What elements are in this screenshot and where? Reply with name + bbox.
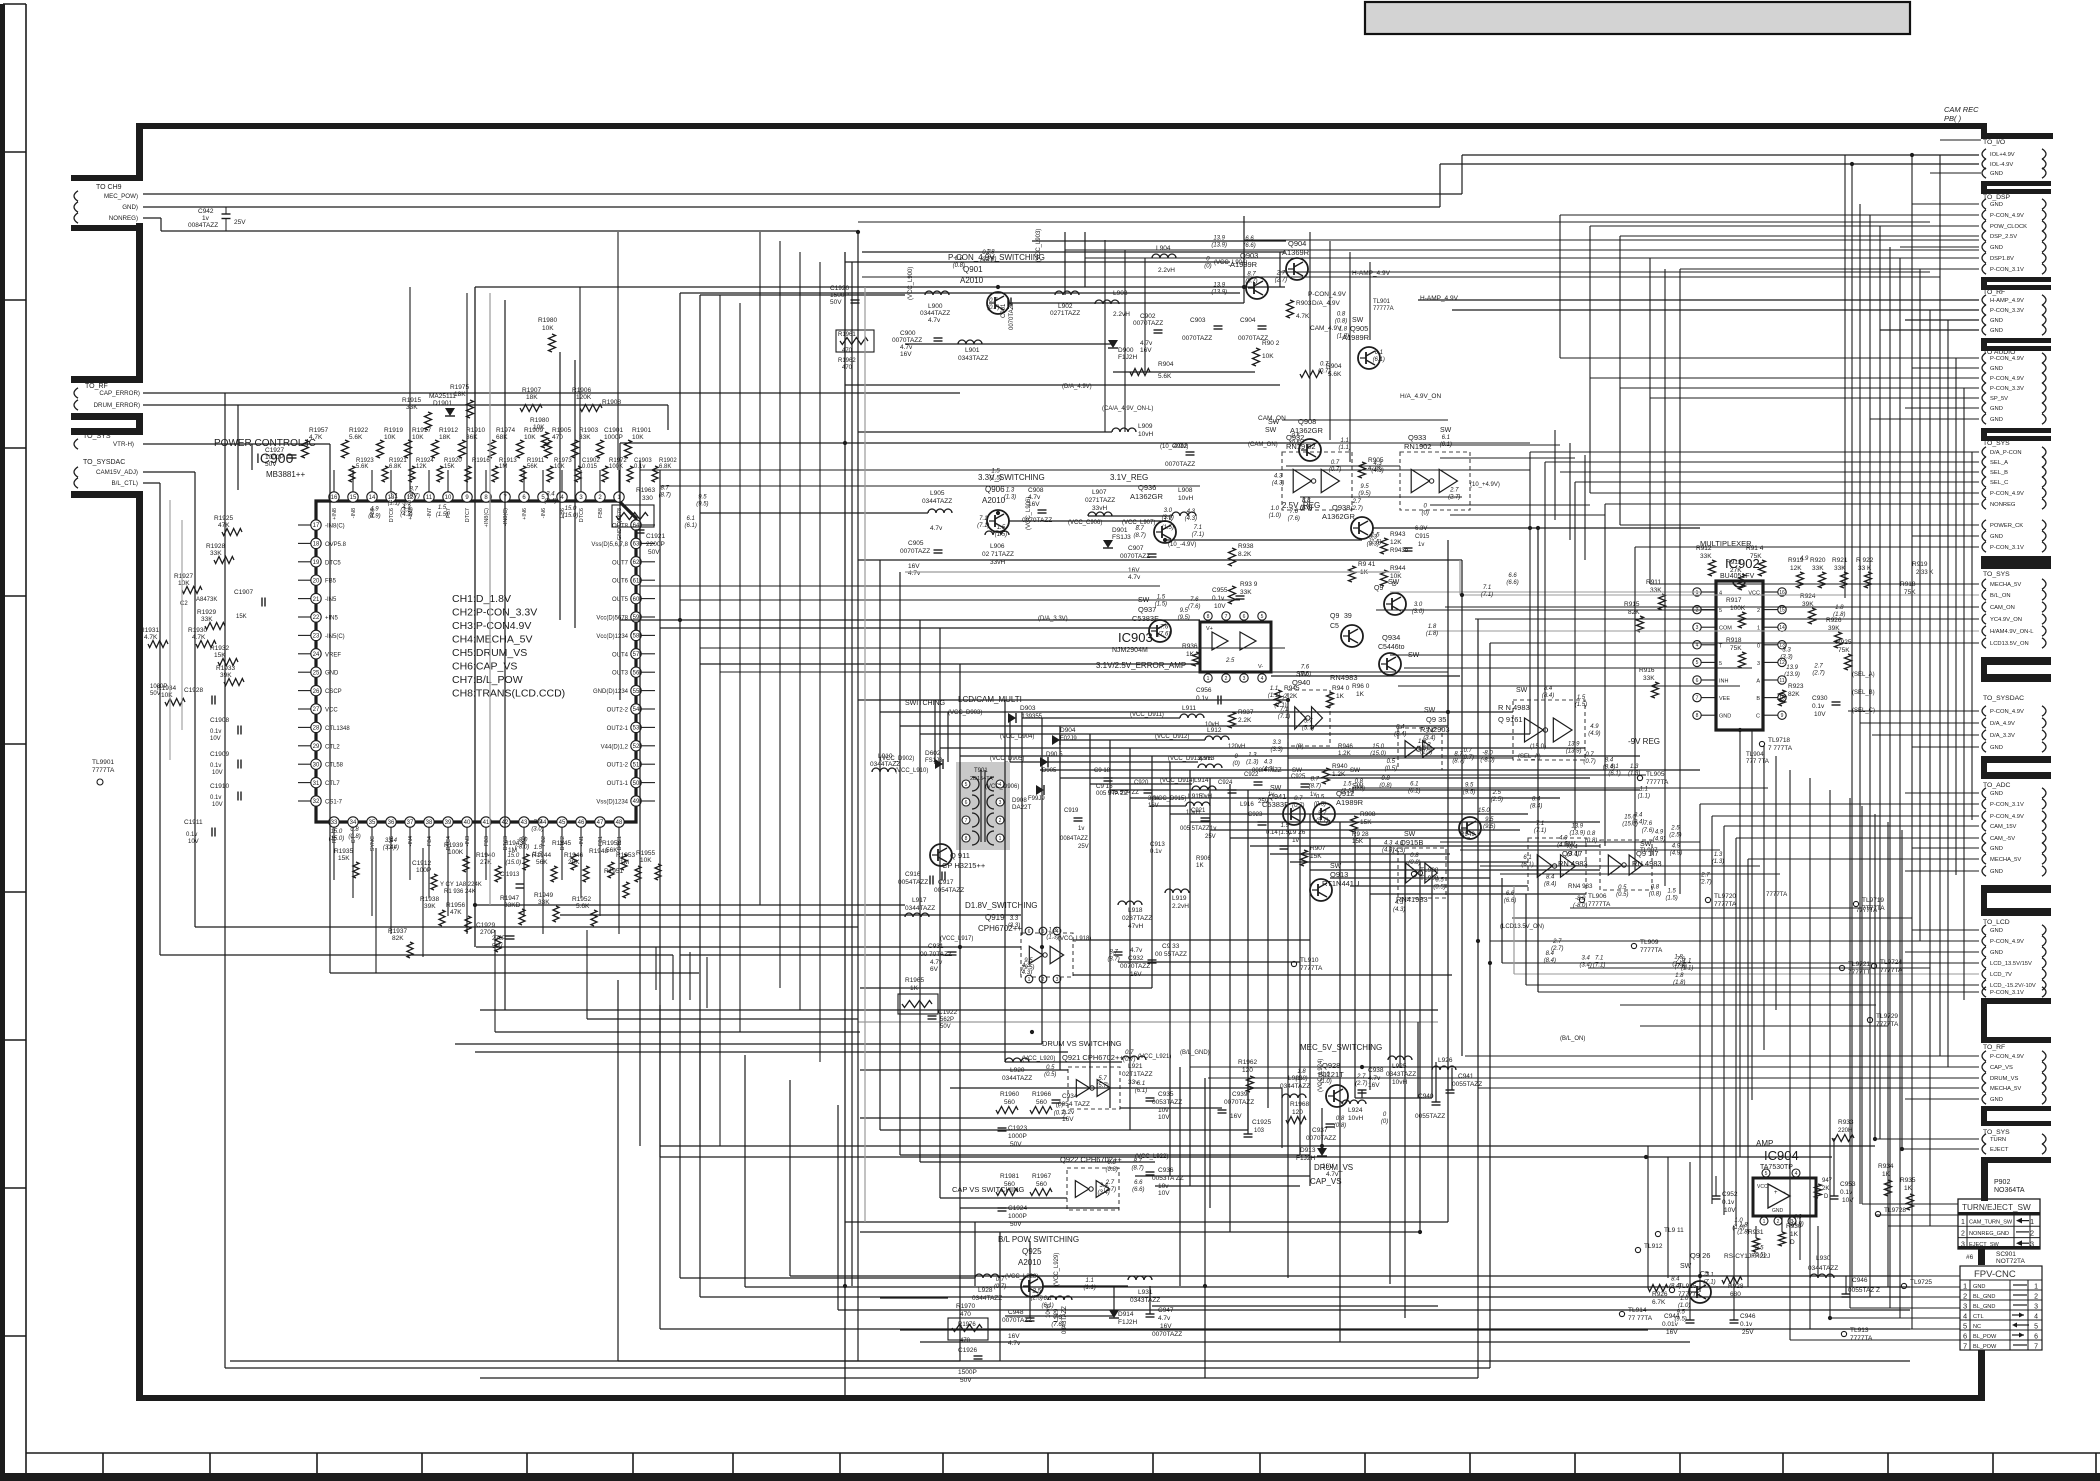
svg-text:Q940: Q940 (1292, 678, 1310, 687)
svg-text:15.0: 15.0 (565, 506, 577, 512)
svg-text:1.5: 1.5 (997, 525, 1006, 531)
svg-text:CAM15V_ADJ): CAM15V_ADJ) (96, 469, 138, 476)
svg-text:14: 14 (369, 495, 376, 501)
section P-CON_4.9V_SWITCHING title (948, 253, 1045, 285)
svg-text:1K: 1K (1336, 693, 1345, 700)
svg-text:6: 6 (1028, 929, 1031, 935)
svg-text:TL912: TL912 (1644, 1243, 1663, 1250)
svg-text:IOL+4.9V: IOL+4.9V (1990, 152, 2015, 158)
svg-text:C919: C919 (1064, 808, 1079, 814)
svg-text:103: 103 (1254, 1128, 1265, 1134)
svg-text:6: 6 (1696, 678, 1699, 684)
svg-text:6.6: 6.6 (1134, 1180, 1143, 1186)
svg-text:(10_-4.9V): (10_-4.9V) (1168, 542, 1196, 548)
svg-text:4: 4 (1261, 676, 1264, 682)
svg-text:5.7: 5.7 (1098, 1076, 1107, 1082)
wire mesh (143, 140, 1981, 1395)
svg-text:L905: L905 (930, 490, 945, 497)
svg-text:47K: 47K (218, 522, 230, 529)
svg-text:SEL_A: SEL_A (1990, 460, 2008, 466)
svg-text:(2.5): (2.5) (1669, 833, 1681, 839)
svg-text:33: 33 (331, 820, 338, 826)
svg-text:9.5: 9.5 (1180, 608, 1189, 614)
svg-text:(1.5): (1.5) (1279, 830, 1291, 836)
svg-text:30: 30 (313, 762, 320, 768)
svg-text:120: 120 (1292, 1109, 1303, 1116)
svg-text:1K: 1K (1790, 1231, 1799, 1238)
svg-text:14: 14 (1779, 625, 1785, 631)
svg-text:C5383F: C5383F (1262, 800, 1289, 809)
svg-text:Q9: Q9 (1330, 613, 1339, 620)
svg-text:CAM_ON: CAM_ON (1990, 605, 2015, 611)
svg-text:4.7v: 4.7v (1130, 947, 1143, 954)
svg-text:R91 4: R91 4 (1746, 545, 1764, 552)
svg-text:10V: 10V (210, 736, 221, 742)
svg-text:H/AM4.9V_ON-L: H/AM4.9V_ON-L (1990, 629, 2034, 635)
svg-text:NONREG): NONREG) (109, 215, 138, 222)
svg-text:(4.9): (4.9) (1653, 836, 1665, 842)
connector group TO_LCD (1982, 919, 2046, 997)
svg-text:11: 11 (1779, 678, 1784, 684)
svg-text:R9 28: R9 28 (1352, 831, 1369, 838)
capacitor C903 (1182, 317, 1223, 342)
svg-text:-IN8(C): -IN8(C) (325, 524, 345, 530)
svg-text:1.5: 1.5 (1163, 518, 1172, 524)
svg-text:R1980: R1980 (530, 417, 550, 424)
svg-text:C2: C2 (180, 601, 188, 607)
svg-text:4.7K: 4.7K (309, 434, 323, 441)
svg-text:VREF: VREF (325, 652, 341, 658)
svg-text:75K: 75K (1750, 553, 1762, 560)
svg-text:4.3: 4.3 (1274, 474, 1283, 480)
transistor Q908 (1268, 417, 1324, 461)
svg-text:10V: 10V (1214, 603, 1226, 610)
svg-text:7.1: 7.1 (1194, 525, 1202, 531)
svg-text:33vH: 33vH (1092, 505, 1107, 512)
svg-text:25V: 25V (234, 219, 246, 226)
svg-text:(10_-4.9V): (10_-4.9V) (1160, 444, 1188, 450)
svg-text:0.1v: 0.1v (1196, 695, 1209, 702)
svg-text:(VCC_L910): (VCC_L910) (895, 768, 928, 774)
svg-text:CSCP: CSCP (325, 689, 342, 695)
svg-text:(9.5): (9.5) (1674, 1316, 1686, 1322)
svg-text:R923: R923 (1788, 683, 1804, 690)
svg-text:R1955: R1955 (636, 850, 656, 857)
capacitor C912 (1165, 443, 1195, 468)
svg-text:(7.1): (7.1) (1593, 963, 1605, 969)
svg-text:45: 45 (559, 820, 566, 826)
svg-text:DRUM_ERROR): DRUM_ERROR) (94, 402, 140, 409)
inverter pair Q940 RN4983 (1288, 671, 1358, 746)
svg-text:(VCC_L929): (VCC_L929) (1054, 1253, 1060, 1286)
svg-text:CH6:CAP_VS: CH6:CAP_VS (452, 661, 517, 673)
svg-text:5: 5 (1963, 1322, 1967, 1331)
svg-text:(VCC_D913): (VCC_D913) (1168, 756, 1202, 762)
svg-text:L924: L924 (1348, 1107, 1363, 1114)
svg-text:2.33 K: 2.33 K (1916, 570, 1933, 576)
svg-text:(15.0): (15.0) (563, 513, 579, 519)
svg-text:FB5: FB5 (325, 579, 337, 585)
svg-text:GND: GND (1990, 417, 2003, 423)
svg-text:(7.6): (7.6) (1188, 604, 1200, 610)
svg-text:4.3: 4.3 (1384, 841, 1393, 847)
svg-text:Q925: Q925 (1022, 1247, 1042, 1256)
svg-text:POW_CLOCK: POW_CLOCK (1990, 224, 2027, 230)
capacitor C938 (1358, 1067, 1384, 1093)
transistor Q912 (1313, 783, 1364, 825)
svg-text:(0.8): (0.8) (1106, 1167, 1118, 1173)
svg-text:1.8: 1.8 (1835, 605, 1844, 611)
svg-text:C934: C934 (1062, 1093, 1078, 1100)
svg-text:10V: 10V (1158, 1114, 1170, 1121)
svg-text:CTL1348: CTL1348 (325, 726, 350, 732)
svg-text:D904: D904 (1060, 727, 1076, 734)
svg-text:2.2vH: 2.2vH (1172, 903, 1189, 910)
svg-text:330: 330 (642, 495, 653, 502)
svg-text:6.6: 6.6 (1506, 891, 1515, 897)
svg-text:D/A_P-CON: D/A_P-CON (1990, 450, 2022, 456)
svg-text:A1362GR: A1362GR (1322, 512, 1356, 521)
inductor L900 (920, 291, 950, 324)
svg-text:9: 9 (1781, 713, 1784, 719)
svg-text:39K: 39K (424, 903, 436, 910)
transistor Q942 (1374, 579, 1406, 615)
svg-text:7777TA: 7777TA (1640, 947, 1663, 954)
svg-text:R1945: R1945 (552, 840, 572, 847)
svg-text:R1950: R1950 (602, 840, 622, 847)
IC900 right pins (591, 520, 655, 806)
svg-text:5: 5 (1719, 661, 1722, 667)
svg-text:CH2:P-CON_3.3V: CH2:P-CON_3.3V (452, 607, 537, 619)
svg-text:0.8: 0.8 (1410, 853, 1419, 859)
IC900 labels (214, 438, 316, 479)
svg-text:(3.3): (3.3) (1780, 654, 1792, 660)
svg-text:7.1: 7.1 (1280, 707, 1288, 713)
svg-text:5: 5 (965, 782, 968, 788)
svg-text:CH1:D_1.8V: CH1:D_1.8V (452, 593, 511, 605)
svg-text:A1989R: A1989R (1336, 798, 1364, 807)
svg-text:1M: 1M (620, 859, 629, 866)
svg-text:8.7: 8.7 (1109, 949, 1118, 955)
svg-text:0.7: 0.7 (996, 1277, 1005, 1283)
svg-text:TO CH9: TO CH9 (96, 184, 122, 191)
svg-text:TA7530TP: TA7530TP (1760, 1164, 1793, 1171)
svg-text:Q 9161: Q 9161 (1498, 715, 1523, 724)
resistor R926b (1648, 1285, 1668, 1307)
svg-text:(VCC_L903): (VCC_L903) (1036, 229, 1042, 262)
svg-text:+IN8(C): +IN8(C) (484, 508, 490, 528)
svg-text:TO AUDIO: TO AUDIO (1983, 349, 2015, 356)
svg-text:2: 2 (1963, 1292, 1967, 1301)
svg-text:R1961: R1961 (838, 332, 856, 338)
transistor Q932 inverter pair (1265, 427, 1352, 510)
svg-text:12K: 12K (1790, 565, 1802, 572)
svg-text:(VCC_L920): (VCC_L920) (1022, 1056, 1055, 1062)
svg-text:GND: GND (1990, 534, 2003, 540)
svg-text:0.8: 0.8 (1337, 312, 1346, 318)
svg-text:GND: GND (1973, 1284, 1985, 1290)
svg-text:(0.8): (0.8) (953, 263, 965, 269)
svg-text:R1966: R1966 (1032, 1091, 1052, 1098)
svg-text:TL913: TL913 (1850, 1327, 1869, 1334)
svg-text:+IN5: +IN5 (325, 616, 339, 622)
svg-text:R946: R946 (1338, 743, 1353, 750)
svg-text:(3.4): (3.4) (1580, 963, 1592, 969)
svg-text:(8.7): (8.7) (1309, 784, 1321, 790)
svg-text:2: 2 (1777, 1219, 1780, 1225)
capacitor C1925 (1244, 1119, 1272, 1137)
svg-text:R1981: R1981 (1000, 1173, 1020, 1180)
svg-text:R1929: R1929 (197, 609, 217, 616)
svg-text:15: 15 (1779, 607, 1785, 613)
svg-text:R906: R906 (1196, 855, 1211, 862)
svg-text:L902: L902 (1058, 303, 1073, 310)
svg-text:18K: 18K (454, 391, 466, 398)
svg-text:TO_SYS: TO_SYS (1983, 1129, 2010, 1136)
svg-text:SEL_B: SEL_B (1990, 470, 2008, 476)
svg-text:560: 560 (1036, 1181, 1047, 1188)
svg-text:R1905: R1905 (552, 427, 572, 434)
svg-text:C935: C935 (1158, 1091, 1174, 1098)
svg-text:21: 21 (313, 597, 320, 603)
svg-text:4.3: 4.3 (1395, 900, 1404, 906)
svg-text:(VCC_D906): (VCC_D906) (985, 784, 1019, 790)
svg-text:58: 58 (633, 634, 640, 640)
inverter pair Q917 RN4983 (1528, 838, 1588, 894)
svg-text:(3.3): (3.3) (1300, 505, 1312, 511)
svg-text:1.2K: 1.2K (1338, 750, 1352, 757)
inductor L901 (958, 340, 988, 362)
svg-text:MB3881++: MB3881++ (266, 470, 305, 479)
svg-text:2.5: 2.5 (1670, 826, 1680, 832)
svg-text:7.6: 7.6 (1190, 597, 1199, 603)
svg-text:0.1v: 0.1v (186, 832, 197, 838)
svg-text:560: 560 (1004, 1181, 1015, 1188)
svg-text:R1962: R1962 (838, 358, 856, 364)
svg-text:7.1: 7.1 (1483, 585, 1491, 591)
svg-text:Q936: Q936 (1138, 483, 1156, 492)
svg-text:D/A_4.9V: D/A_4.9V (1990, 721, 2015, 727)
svg-text:4.7v: 4.7v (928, 317, 941, 324)
svg-text:1500P: 1500P (958, 1369, 977, 1376)
resistor R943 (1381, 531, 1406, 554)
svg-text:8: 8 (965, 836, 968, 842)
svg-text:16V: 16V (1230, 1113, 1242, 1120)
svg-text:(6.1): (6.1) (1608, 771, 1620, 777)
svg-text:(9.5): (9.5) (1463, 789, 1475, 795)
svg-text:B: B (1756, 696, 1760, 702)
svg-text:(13.9): (13.9) (1569, 830, 1585, 836)
svg-text:R1957: R1957 (309, 427, 329, 434)
svg-text:C924: C924 (1218, 780, 1233, 786)
svg-text:GND: GND (1990, 846, 2003, 852)
capacitor C1922 (928, 1009, 958, 1030)
svg-text:1: 1 (1207, 676, 1210, 682)
svg-text:GND: GND (1990, 366, 2003, 372)
svg-text:(8.4): (8.4) (1669, 1284, 1681, 1290)
svg-text:(3.3): (3.3) (400, 507, 412, 513)
svg-text:(2.7): (2.7) (1812, 670, 1824, 676)
svg-text:1.8: 1.8 (1428, 624, 1437, 630)
svg-text:CAM_4.9V: CAM_4.9V (1310, 325, 1342, 332)
svg-text:(0.8): (0.8) (1649, 891, 1661, 897)
svg-text:10: 10 (445, 495, 452, 501)
svg-text:10vH: 10vH (1178, 495, 1193, 502)
svg-text:75K: 75K (1730, 645, 1742, 652)
svg-text:(VCC_D905): (VCC_D905) (990, 756, 1024, 762)
svg-text:SW: SW (1516, 687, 1528, 694)
svg-text:0344TAZZ: 0344TAZZ (870, 761, 900, 768)
svg-text:(9.5): (9.5) (1178, 615, 1190, 621)
svg-text:(8.7): (8.7) (1131, 1165, 1143, 1171)
svg-text:TL905: TL905 (1646, 771, 1665, 778)
svg-text:A8473K: A8473K (196, 597, 217, 603)
svg-text:TO_SYS: TO_SYS (83, 433, 111, 440)
multiplexer IC902 body (1693, 581, 1786, 730)
svg-text:(6.1): (6.1) (1041, 1303, 1053, 1309)
svg-text:39K: 39K (220, 672, 232, 679)
svg-text:(8.4): (8.4) (1544, 958, 1556, 964)
svg-text:CP H3215++: CP H3215++ (942, 861, 986, 870)
svg-text:62: 62 (633, 560, 640, 566)
svg-text:(3.4): (3.4) (383, 845, 395, 851)
svg-text:SW: SW (1440, 427, 1452, 434)
svg-text:R1922: R1922 (349, 427, 369, 434)
transistor Q926 (1680, 1251, 1711, 1303)
svg-text:DRUM_VS: DRUM_VS (1990, 1076, 2018, 1082)
IC900 top pin names (332, 508, 623, 540)
transistor Q906 (987, 510, 1009, 532)
svg-text:0084TAZZ: 0084TAZZ (188, 222, 218, 229)
svg-text:13.9: 13.9 (1571, 823, 1583, 829)
svg-text:Q938: Q938 (1332, 503, 1350, 512)
svg-text:R1912: R1912 (439, 427, 459, 434)
svg-text:6.1: 6.1 (1523, 855, 1531, 861)
svg-text:(0.7): (0.7) (980, 257, 992, 263)
svg-text:7: 7 (965, 818, 968, 824)
svg-text:(1.5): (1.5) (532, 852, 544, 858)
svg-text:6.1: 6.1 (687, 516, 695, 522)
svg-text:29: 29 (313, 744, 320, 750)
svg-text:15.0: 15.0 (331, 829, 343, 835)
resistor R939 (1229, 581, 1258, 604)
svg-text:4.3: 4.3 (1187, 509, 1196, 515)
svg-text:(8.7): (8.7) (1107, 956, 1119, 962)
svg-text:(6.6): (6.6) (1132, 1187, 1144, 1193)
svg-text:35: 35 (369, 820, 376, 826)
diode D913 (1296, 1147, 1339, 1178)
svg-text:1.1: 1.1 (1086, 1278, 1094, 1284)
svg-text:2: 2 (999, 818, 1002, 824)
svg-text:7777TT: 7777TT (1848, 969, 1870, 976)
svg-text:(2.7): (2.7) (1551, 946, 1563, 952)
svg-text:1.0: 1.0 (1271, 506, 1280, 512)
capacitor C944 (1662, 1313, 1695, 1336)
svg-text:(0.5): (0.5) (1385, 766, 1397, 772)
svg-text:(0.8): (0.8) (1334, 1123, 1346, 1129)
svg-text:(SEL_B): (SEL_B) (1852, 690, 1875, 696)
svg-text:L919: L919 (1172, 895, 1187, 902)
svg-text:33K: 33K (579, 434, 591, 441)
svg-text:(0.7): (0.7) (1329, 467, 1341, 473)
capacitor C930 (1812, 695, 1841, 718)
svg-text:R935: R935 (1900, 1177, 1916, 1184)
svg-text:(0.7): (0.7) (1054, 1111, 1066, 1117)
svg-text:5: 5 (1719, 608, 1722, 614)
svg-text:(9.5): (9.5) (1483, 824, 1495, 830)
svg-text:0.8: 0.8 (1355, 779, 1364, 785)
svg-text:1: 1 (1028, 977, 1031, 983)
svg-text:5.7: 5.7 (1318, 811, 1327, 817)
svg-text:C925: C925 (1291, 774, 1306, 780)
svg-text:(6.6): (6.6) (1506, 580, 1518, 586)
inductor L921 (1122, 1056, 1153, 1086)
svg-text:SW: SW (1270, 785, 1282, 792)
svg-text:C1921: C1921 (646, 533, 666, 540)
svg-text:DSP_2.5V: DSP_2.5V (1990, 234, 2017, 240)
svg-text:005 5TA ZZ: 005 5TA ZZ (1096, 790, 1128, 797)
svg-text:GND: GND (1990, 245, 2003, 251)
svg-text:SW: SW (1388, 579, 1400, 586)
svg-text:3.3: 3.3 (402, 500, 411, 506)
svg-text:-IN6: -IN6 (541, 508, 547, 518)
svg-text:1.3: 1.3 (1422, 742, 1431, 748)
section CAP_VS_SWITCHING title (952, 1185, 1025, 1194)
transistor Q941 (1262, 785, 1305, 825)
svg-text:0070TAZZ: 0070TAZZ (1133, 320, 1163, 327)
svg-text:(0.8): (0.8) (1353, 786, 1365, 792)
svg-text:(VCC_D911): (VCC_D911) (1130, 712, 1164, 718)
inductors L911-L915 with diodes (1180, 705, 1245, 816)
svg-text:22: 22 (313, 615, 320, 621)
svg-text:CAP_VS: CAP_VS (1990, 1065, 2013, 1071)
svg-text:SW: SW (1404, 831, 1416, 838)
svg-text:1000P: 1000P (1008, 1213, 1027, 1220)
svg-text:CAP_ERROR): CAP_ERROR) (99, 390, 140, 397)
svg-text:TO_SYS: TO_SYS (1983, 571, 2010, 578)
svg-text:C916: C916 (905, 871, 921, 878)
svg-text:R940: R940 (1332, 763, 1348, 770)
power control IC900 MB3881 body (316, 501, 636, 822)
svg-text:IC904: IC904 (1764, 1148, 1799, 1163)
svg-text:MECHA_5V: MECHA_5V (1990, 1086, 2021, 1092)
svg-text:3.4: 3.4 (1582, 956, 1591, 962)
svg-text:TURN/EJECT_SW: TURN/EJECT_SW (1962, 1203, 2031, 1212)
svg-text:(1.0): (1.0) (1732, 1225, 1744, 1231)
svg-text:R1919: R1919 (384, 427, 404, 434)
table FPV-CNC (1960, 1266, 2042, 1351)
svg-text:C1920: C1920 (830, 285, 850, 292)
svg-text:FPV-CNC: FPV-CNC (1974, 1269, 2016, 1280)
svg-text:6.7K: 6.7K (1652, 1299, 1666, 1306)
svg-text:16V: 16V (1062, 1116, 1074, 1123)
svg-text:LCD13.5V_ON: LCD13.5V_ON (1990, 641, 2029, 647)
inductor L928 (972, 1274, 1002, 1302)
svg-text:C1907: C1907 (234, 589, 254, 596)
svg-text:CAM_ON: CAM_ON (1258, 415, 1286, 422)
VCC net name labels (880, 229, 1585, 1286)
svg-text:(1.5): (1.5) (1575, 702, 1587, 708)
svg-text:(8.7): (8.7) (1245, 279, 1257, 285)
IC900 bottom pin names (332, 835, 623, 851)
svg-text:(1.8): (1.8) (1833, 612, 1845, 618)
svg-text:CAM_-5V: CAM_-5V (1990, 836, 2015, 842)
svg-text:0.1v: 0.1v (1840, 1189, 1853, 1196)
svg-text:13.9: 13.9 (1786, 665, 1798, 671)
svg-text:(VCC_D912): (VCC_D912) (1155, 734, 1189, 740)
svg-text:(7.6): (7.6) (1299, 672, 1311, 678)
svg-text:R1947: R1947 (500, 895, 520, 902)
